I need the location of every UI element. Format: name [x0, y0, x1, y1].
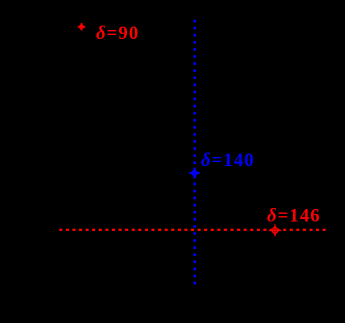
- node red star marker (delta=146): [269, 224, 281, 236]
- node red star marker (delta=90): [78, 23, 85, 31]
- svg-text:δ=140: δ=140: [201, 150, 255, 171]
- wire vertical blue dotted line: [193, 20, 196, 285]
- svg-text:δ=146: δ=146: [267, 205, 321, 226]
- svg-text:δ=90: δ=90: [96, 23, 139, 44]
- wire horizontal red dotted line: [59, 229, 325, 231]
- node blue star marker (delta=140): [189, 168, 200, 179]
